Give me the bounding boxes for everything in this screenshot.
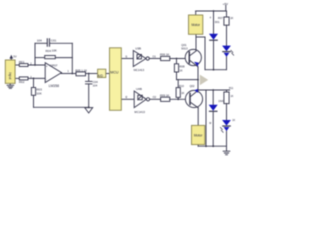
svg-text:Q02: Q02 [190,84,195,88]
svg-text:O1: O1 [152,54,156,58]
svg-text:1K: 1K [181,91,184,95]
svg-text:MC1413: MC1413 [134,68,145,72]
svg-text:R06 1K: R06 1K [160,53,169,57]
svg-text:LM358: LM358 [49,84,59,88]
svg-text:10K: 10K [52,48,57,52]
svg-text:D01: D01 [215,20,220,24]
svg-text:9013: 9013 [181,46,188,50]
svg-text:5V: 5V [13,55,16,59]
svg-text:U3B: U3B [135,46,141,50]
svg-text:C01: C01 [51,38,57,42]
svg-text:+5V: +5V [223,2,228,6]
svg-text:R07: R07 [218,16,223,20]
svg-text:1K: 1K [232,119,235,122]
svg-text:O2: O2 [153,95,157,99]
svg-text:R09 1K: R09 1K [160,93,169,97]
svg-text:R05 1.1K: R05 1.1K [75,68,87,72]
svg-text:R08: R08 [179,65,185,69]
svg-text:Motor: Motor [191,23,200,27]
svg-text:MCU: MCU [110,70,119,74]
svg-text:1K: 1K [179,68,182,72]
svg-text:R10: R10 [179,84,184,88]
svg-text:Motor: Motor [194,133,203,137]
svg-text:Input: Input [8,72,12,79]
svg-text:R11: R11 [229,87,234,90]
svg-text:A/D: A/D [98,74,104,78]
svg-text:-: - [46,77,47,81]
svg-text:104: 104 [93,84,98,88]
svg-text:1K: 1K [230,95,233,98]
svg-text:R01: R01 [19,60,25,64]
svg-text:1K: 1K [230,16,233,20]
svg-text:1N41: 1N41 [218,99,225,103]
svg-text:10K: 10K [36,91,41,95]
svg-text:OP07: OP07 [50,64,58,68]
svg-text:M: M [209,122,211,125]
svg-text:+: + [46,64,48,68]
svg-text:R02: R02 [19,80,25,84]
svg-text:MC1413: MC1413 [134,110,145,114]
svg-text:104: 104 [37,39,42,43]
svg-text:R04: R04 [46,49,52,53]
svg-text:U4B: U4B [136,87,142,91]
